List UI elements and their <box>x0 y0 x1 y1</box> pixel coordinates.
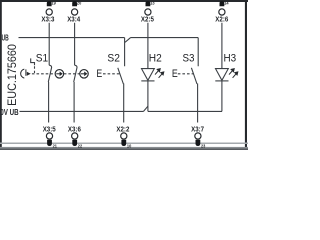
svg-text:13: 13 <box>150 0 155 5</box>
svg-text:21: 21 <box>53 143 58 148</box>
svg-text:S1: S1 <box>36 52 48 65</box>
svg-text:10: 10 <box>127 143 132 148</box>
svg-text:23: 23 <box>201 143 206 148</box>
svg-text:H2: H2 <box>149 52 162 65</box>
svg-text:X3:5: X3:5 <box>43 126 56 133</box>
svg-text:EUC.175660: EUC.175660 <box>7 44 20 106</box>
svg-text:S2: S2 <box>107 52 120 65</box>
svg-text:X2:6: X2:6 <box>215 16 228 23</box>
svg-text:E: E <box>96 68 102 80</box>
svg-text:S3: S3 <box>183 52 195 65</box>
svg-text:UB: UB <box>2 34 9 42</box>
svg-text:H3: H3 <box>224 52 237 65</box>
svg-text:E: E <box>172 68 178 80</box>
svg-text:14: 14 <box>224 0 229 5</box>
svg-text:22: 22 <box>78 143 83 148</box>
svg-text:20: 20 <box>77 0 82 5</box>
svg-text:X3:4: X3:4 <box>67 16 80 23</box>
svg-text:X3:6: X3:6 <box>68 126 81 133</box>
svg-text:X3:7: X3:7 <box>191 126 204 133</box>
svg-text:X3:3: X3:3 <box>41 16 54 23</box>
svg-text:0V UB: 0V UB <box>0 108 18 117</box>
svg-text:19: 19 <box>52 0 57 5</box>
svg-text:X2:5: X2:5 <box>141 16 154 23</box>
svg-text:X2:2: X2:2 <box>116 126 129 133</box>
